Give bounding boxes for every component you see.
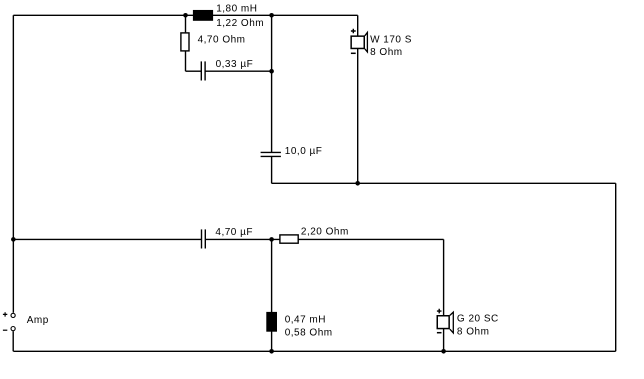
capacitor C2 bottom plate xyxy=(261,155,281,157)
wire vertical 271 lower xyxy=(271,156,273,183)
svg-text:0,47 mH: 0,47 mH xyxy=(285,315,326,326)
wire cap C3 to junction xyxy=(205,238,279,240)
speaker W 170 S cone xyxy=(365,32,368,52)
svg-text:2,20 Ohm: 2,20 Ohm xyxy=(301,227,349,238)
node junction bottom wire / L2 branch xyxy=(269,349,274,354)
svg-text:W 170 S: W 170 S xyxy=(370,35,412,46)
wire cap C1 right lead xyxy=(205,70,272,72)
wire top horizontal xyxy=(13,14,357,16)
node junction C3 / R2 / L2 branch xyxy=(269,237,274,242)
resistor R2 2,20 Ohm xyxy=(280,235,298,243)
inductor L1 1,80 mH xyxy=(193,10,213,21)
resistor R1 4,70 Ohm xyxy=(181,33,189,51)
capacitor C1 right plate xyxy=(204,61,206,80)
wire resistor R1 branch top xyxy=(185,15,187,32)
node junction C1 right / vertical 271 xyxy=(269,69,274,74)
svg-text:0,58 Ohm: 0,58 Ohm xyxy=(285,328,333,339)
wire vertical 271 upper xyxy=(271,15,273,152)
wire inductor L2 branch xyxy=(271,239,273,351)
node junction bottom wire / speaker2 lead xyxy=(441,349,446,354)
wire right vertical xyxy=(615,183,617,351)
speaker G 20 SC box xyxy=(437,316,449,329)
svg-text:1,22 Ohm: 1,22 Ohm xyxy=(216,18,264,29)
wire speaker1 bottom lead xyxy=(357,48,359,183)
svg-text:4,70 µF: 4,70 µF xyxy=(215,227,253,238)
speaker W 170 S box xyxy=(351,36,364,48)
node junction top wire / R1 branch xyxy=(183,13,188,18)
svg-text:G 20 SC: G 20 SC xyxy=(457,314,499,325)
wire amp minus down xyxy=(12,331,14,351)
terminal amp minus xyxy=(11,327,15,331)
svg-text:Amp: Amp xyxy=(27,315,49,326)
svg-text:8 Ohm: 8 Ohm xyxy=(370,47,403,58)
svg-text:8 Ohm: 8 Ohm xyxy=(457,327,490,338)
wire speaker2 bottom lead xyxy=(443,329,445,351)
speaker G 20 SC plus xyxy=(437,309,442,314)
wire resistor R2 to speaker2 xyxy=(299,238,444,240)
node junction top wire / vertical 271 xyxy=(269,13,274,18)
speaker W 170 S minus xyxy=(351,52,356,54)
svg-text:4,70 Ohm: 4,70 Ohm xyxy=(198,34,246,45)
wire bottom horizontal xyxy=(13,350,615,352)
capacitor C3 right plate xyxy=(204,229,206,248)
speaker W 170 S plus xyxy=(351,29,356,34)
speaker G 20 SC minus xyxy=(437,332,442,334)
node junction middle wire / speaker1 lead xyxy=(355,181,360,186)
capacitor C2 10,0 uF top plate xyxy=(261,151,281,153)
wire middle horizontal xyxy=(272,182,616,184)
inductor L2 0,47 mH xyxy=(266,312,277,332)
svg-text:0,33 µF: 0,33 µF xyxy=(216,59,254,70)
wire left vertical xyxy=(12,15,14,313)
wire speaker2 top lead xyxy=(443,239,445,315)
svg-text:1,80 mH: 1,80 mH xyxy=(216,4,257,15)
amp plus sign xyxy=(3,312,7,316)
terminal amp plus xyxy=(11,313,15,317)
wire cap C1 left lead xyxy=(186,70,202,72)
wire speaker1 top lead xyxy=(357,15,359,36)
speaker G 20 SC cone xyxy=(450,312,453,333)
svg-text:10,0 µF: 10,0 µF xyxy=(285,146,323,157)
capacitor C3 4,70 uF left plate xyxy=(201,229,203,248)
amp minus sign xyxy=(3,329,7,331)
node junction left wire / amp feed xyxy=(11,237,16,242)
capacitor C1 0,33 uF left plate xyxy=(200,61,202,80)
wire resistor R1 branch bottom xyxy=(185,51,187,71)
wire amp plus to cap C3 xyxy=(13,238,201,240)
